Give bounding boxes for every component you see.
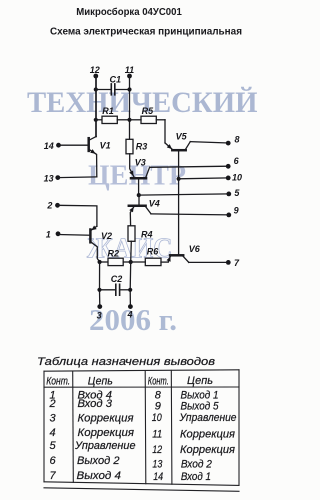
svg-text:R4: R4 bbox=[141, 230, 153, 240]
svg-text:Цепь: Цепь bbox=[88, 376, 113, 388]
wire R2 node down to C2 and pin 3 bbox=[99, 262, 101, 307]
pin 8 terminal bbox=[226, 141, 231, 146]
wire rail pin11 vertical bbox=[129, 76, 131, 139]
svg-text:R1: R1 bbox=[102, 106, 114, 116]
svg-text:Выход 5: Выход 5 bbox=[181, 401, 220, 413]
transistor V2 bbox=[90, 226, 112, 262]
pin 7 terminal bbox=[226, 260, 231, 265]
transistor V4 bbox=[129, 195, 160, 226]
transistor V3 bbox=[129, 154, 149, 195]
svg-text:4: 4 bbox=[127, 309, 133, 319]
pin 3 terminal bbox=[97, 304, 102, 309]
resistor R2 bbox=[100, 248, 131, 265]
node R1 left junction bbox=[94, 118, 98, 122]
svg-text:Микросборка 04УС001: Микросборка 04УС001 bbox=[76, 6, 182, 18]
wire V4 collector to pin 9 bbox=[151, 214, 229, 215]
resistor R1 bbox=[96, 106, 130, 124]
transistor V5 bbox=[165, 132, 190, 255]
svg-text:14: 14 bbox=[44, 141, 54, 151]
wire pin2 to V2 emitter bbox=[58, 205, 97, 226]
svg-text:6: 6 bbox=[49, 455, 56, 467]
node R2 left junction bbox=[98, 260, 102, 264]
svg-text:6: 6 bbox=[234, 156, 240, 166]
svg-text:Схема электрическая принципиал: Схема электрическая принципиальная bbox=[50, 26, 242, 38]
table right column rows bbox=[152, 389, 237, 483]
pin 12 terminal bbox=[93, 74, 98, 79]
svg-text:Коррекция: Коррекция bbox=[180, 429, 235, 441]
node C2 right junction bbox=[128, 288, 132, 292]
svg-text:Управление: Управление bbox=[74, 440, 135, 452]
wire rail pin12 vertical bbox=[95, 76, 97, 137]
svg-text:Выход 4: Выход 4 bbox=[77, 470, 122, 482]
svg-text:13: 13 bbox=[152, 459, 163, 471]
svg-text:11: 11 bbox=[152, 429, 162, 441]
svg-text:2: 2 bbox=[48, 398, 55, 410]
svg-text:Цепь: Цепь bbox=[187, 375, 213, 387]
svg-text:2: 2 bbox=[46, 201, 52, 211]
svg-text:5: 5 bbox=[234, 188, 240, 198]
pin 6 terminal bbox=[226, 164, 231, 169]
svg-text:Вход 2: Вход 2 bbox=[181, 459, 212, 471]
svg-text:V5: V5 bbox=[176, 132, 188, 142]
svg-text:3: 3 bbox=[97, 310, 102, 320]
node C1 right junction bbox=[127, 87, 131, 91]
wire pin13 to V1 emitter bbox=[58, 176, 97, 179]
svg-text:9: 9 bbox=[155, 401, 161, 413]
capacitor C2 bbox=[100, 274, 131, 295]
svg-text:Вход 3: Вход 3 bbox=[78, 398, 113, 410]
svg-text:5: 5 bbox=[49, 440, 56, 452]
svg-text:3: 3 bbox=[49, 412, 56, 424]
node V3 base junction bbox=[137, 193, 141, 197]
svg-text:1: 1 bbox=[46, 229, 51, 239]
wire junction to pin 10 bbox=[179, 177, 229, 180]
svg-text:4: 4 bbox=[49, 427, 55, 439]
svg-text:8: 8 bbox=[235, 134, 240, 144]
svg-text:Таблица назначения выводов: Таблица назначения выводов bbox=[37, 356, 215, 368]
pin 1 terminal bbox=[56, 231, 61, 236]
svg-text:R2: R2 bbox=[108, 248, 120, 258]
table header bbox=[46, 375, 213, 388]
pin 11 terminal bbox=[127, 74, 132, 79]
svg-text:14: 14 bbox=[153, 471, 163, 483]
resistor R5 bbox=[130, 106, 166, 124]
pin 9 terminal bbox=[226, 213, 231, 218]
svg-text:V6: V6 bbox=[189, 244, 201, 254]
table frame bbox=[44, 370, 239, 492]
svg-text:Вход 1: Вход 1 bbox=[181, 471, 211, 483]
svg-text:Конт.: Конт. bbox=[148, 375, 169, 387]
svg-text:V2: V2 bbox=[101, 231, 112, 241]
wire V6 emitter to pin 7 bbox=[189, 261, 229, 263]
svg-text:12: 12 bbox=[90, 65, 100, 75]
svg-text:V3: V3 bbox=[135, 157, 146, 167]
resistor R6 bbox=[131, 247, 169, 266]
pin 14 terminal bbox=[56, 143, 61, 148]
svg-text:R6: R6 bbox=[147, 247, 159, 257]
svg-text:Коррекция: Коррекция bbox=[180, 444, 235, 456]
pin 10 terminal bbox=[226, 176, 231, 181]
pin 13 terminal bbox=[55, 175, 60, 180]
table left column rows bbox=[48, 389, 135, 482]
resistor R3 bbox=[126, 139, 147, 154]
svg-text:C1: C1 bbox=[110, 75, 122, 85]
node R2 right junction bbox=[129, 260, 133, 264]
wire junction to pin 5 bbox=[139, 194, 229, 195]
transistor V6 bbox=[167, 244, 201, 262]
svg-text:11: 11 bbox=[125, 65, 134, 75]
capacitor C1 bbox=[96, 75, 130, 95]
svg-text:12: 12 bbox=[152, 444, 162, 456]
svg-text:9: 9 bbox=[234, 205, 239, 215]
wire R6 node down to C2 and pin 4 bbox=[129, 262, 132, 307]
svg-text:C2: C2 bbox=[111, 274, 123, 284]
svg-text:13: 13 bbox=[44, 173, 54, 183]
svg-text:Коррекция: Коррекция bbox=[78, 427, 135, 439]
wire V3 collector to pin 6 bbox=[150, 166, 229, 167]
svg-text:V4: V4 bbox=[149, 199, 160, 209]
transistor V1 bbox=[89, 76, 111, 177]
svg-text:Коррекция: Коррекция bbox=[78, 412, 134, 424]
svg-text:R5: R5 bbox=[142, 106, 154, 116]
node C2 left junction bbox=[97, 288, 101, 292]
wire V5 collector to pin 8 bbox=[190, 142, 228, 143]
svg-text:7: 7 bbox=[49, 470, 56, 482]
svg-text:7: 7 bbox=[234, 258, 240, 268]
wire pin1 to V2 base bbox=[58, 234, 90, 237]
svg-text:10: 10 bbox=[232, 173, 242, 183]
svg-text:Конт.: Конт. bbox=[46, 376, 70, 388]
wire pin14 to V1 base bbox=[59, 144, 89, 146]
node C1 left junction bbox=[94, 87, 98, 91]
svg-text:R3: R3 bbox=[136, 142, 148, 152]
pin 4 terminal bbox=[128, 304, 133, 309]
node R1 right junction bbox=[127, 118, 131, 122]
svg-text:V1: V1 bbox=[100, 141, 111, 151]
pin 5 terminal bbox=[226, 192, 231, 197]
pin 2 terminal bbox=[55, 203, 60, 208]
node V5 emitter junction pin10 bbox=[177, 177, 181, 181]
wire R5 to V5 bbox=[164, 120, 166, 143]
svg-text:Управление: Управление bbox=[179, 412, 237, 424]
svg-text:Выход 2: Выход 2 bbox=[77, 455, 120, 467]
resistor R4 bbox=[128, 226, 153, 262]
svg-text:10: 10 bbox=[152, 412, 163, 424]
svg-text:2006 г.: 2006 г. bbox=[89, 302, 177, 337]
